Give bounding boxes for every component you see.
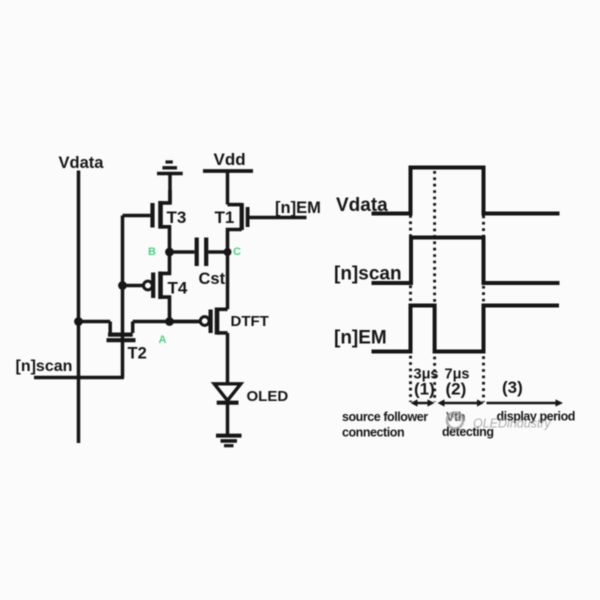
svg-text:Vdata: Vdata [336, 195, 388, 216]
svg-text:OLEDindustry: OLEDindustry [473, 417, 552, 431]
svg-text:[n]EM: [n]EM [275, 199, 321, 217]
junction dot node A [165, 317, 174, 326]
diode OLED [214, 384, 288, 435]
wire Vdata vertical line [77, 171, 81, 444]
svg-text:DTFT: DTFT [231, 313, 269, 330]
svg-text:source follower: source follower [342, 410, 428, 424]
svg-text:Vdd: Vdd [214, 150, 246, 169]
svg-text:T3: T3 [167, 208, 187, 227]
transistor T2 [107, 322, 147, 363]
svg-text:[n]EM: [n]EM [334, 328, 387, 349]
svg-text:[n]scan: [n]scan [16, 358, 73, 375]
svg-text:OLED: OLED [247, 388, 289, 405]
ground (inverted, above T3) [157, 162, 183, 203]
svg-text:B: B [148, 246, 156, 258]
wire gate bus vertical (T3/T4/T2 gates to scan) [121, 216, 125, 378]
svg-text:[n]scan: [n]scan [334, 264, 402, 285]
wire node A row [79, 320, 111, 324]
junction dot Vdata/T2 [74, 317, 83, 326]
transistor T4 [123, 252, 188, 322]
svg-text:A: A [159, 334, 167, 346]
svg-text:C: C [233, 246, 241, 258]
svg-text:Cst: Cst [199, 270, 226, 288]
dotted marker line t3 [482, 216, 485, 403]
arrow phase 1 (double-headed) [411, 399, 435, 406]
wire scan horizontal line [34, 376, 124, 380]
dotted marker line t1 [409, 215, 412, 402]
svg-text:(1): (1) [414, 380, 435, 399]
wire DTFT source down to OLED [226, 333, 230, 384]
node B junction dot [165, 248, 174, 257]
svg-text:(2): (2) [446, 380, 467, 399]
arrow phase 3 (right-headed) [487, 399, 564, 406]
watermark OLEDindustry [447, 413, 552, 431]
waveform [n]EM [372, 306, 560, 352]
arrow phase 2 (double-headed) [438, 399, 485, 406]
transistor T1 [215, 203, 307, 252]
dotted marker line t2 [433, 171, 436, 402]
svg-text:T1: T1 [215, 208, 235, 227]
waveform Vdata [372, 168, 560, 214]
wire right column (C node down to DTFT) [226, 252, 230, 309]
transistor DTFT [170, 308, 269, 335]
capacitor Cst [197, 238, 228, 289]
transistor T3 [123, 190, 187, 252]
ground (below OLED) [216, 436, 242, 446]
node C junction dot [224, 248, 232, 256]
power Vdd [203, 150, 253, 205]
svg-text:T4: T4 [168, 279, 188, 298]
svg-text:T2: T2 [128, 345, 147, 363]
svg-text:(3): (3) [502, 378, 523, 397]
timing diagram [334, 168, 575, 440]
junction dot on gate bus at T4 [118, 281, 127, 290]
svg-text:Vdata: Vdata [59, 154, 105, 172]
svg-text:connection: connection [342, 426, 404, 440]
waveform [n]scan [372, 238, 560, 284]
wire node B to Cst [170, 250, 195, 254]
